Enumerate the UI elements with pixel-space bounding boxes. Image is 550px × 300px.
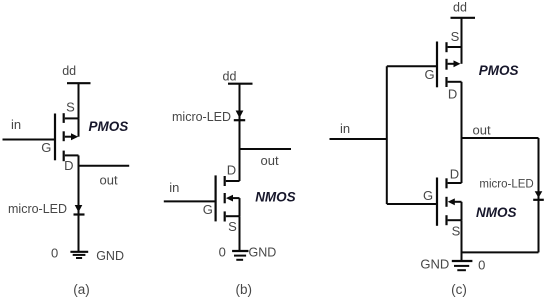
wire output to LED right branch (c)	[538, 138, 540, 252]
wire output net (a)	[79, 165, 130, 167]
svg-text:NMOS: NMOS	[476, 205, 517, 220]
svg-text:S: S	[451, 29, 460, 44]
svg-text:G: G	[41, 140, 51, 155]
wire input branch to gate M3 (c)	[387, 65, 437, 67]
svg-text:out: out	[473, 123, 491, 138]
svg-text:(b): (b)	[236, 282, 253, 297]
svg-text:D: D	[450, 167, 459, 182]
svg-text:micro-LED: micro-LED	[172, 110, 231, 124]
ground symbol (c)	[452, 261, 473, 270]
wire Vdd through LED to drain M2 (b)	[239, 84, 241, 181]
wire input branch to gate M4 (c)	[387, 203, 437, 205]
wire Vdd to source M1	[78, 83, 80, 118]
transistor M2 NMOS (b)	[216, 175, 240, 221]
ground symbol (b)	[232, 251, 248, 260]
supply rail Vdd (c)	[451, 17, 476, 19]
wire output net horizontal (c)	[462, 137, 539, 139]
svg-text:S: S	[66, 100, 75, 115]
svg-text:S: S	[228, 219, 237, 234]
micro-LED D1 (a)	[74, 205, 85, 215]
svg-text:D: D	[448, 87, 457, 102]
wire source M2 to ground (b)	[239, 216, 241, 251]
svg-text:PMOS: PMOS	[479, 63, 519, 78]
svg-text:in: in	[340, 121, 350, 136]
svg-text:dd: dd	[62, 64, 76, 78]
svg-text:GND: GND	[420, 257, 449, 272]
svg-text:in: in	[11, 117, 21, 132]
wire output net (b)	[240, 148, 292, 150]
svg-text:dd: dd	[453, 1, 467, 15]
svg-text:G: G	[203, 202, 213, 217]
svg-text:out: out	[100, 173, 118, 188]
svg-text:micro-LED: micro-LED	[8, 202, 67, 216]
svg-text:NMOS: NMOS	[255, 190, 296, 205]
svg-text:GND: GND	[96, 249, 124, 263]
wire input net (a)	[3, 139, 56, 141]
svg-text:0: 0	[478, 258, 485, 273]
transistor M3 PMOS (c)	[437, 42, 462, 88]
wire drain M3 to drain M4 output net (c)	[461, 82, 463, 183]
supply rail Vdd (a)	[67, 82, 91, 84]
transistor M4 NMOS (c)	[437, 178, 462, 226]
svg-text:micro-LED: micro-LED	[479, 179, 533, 191]
wire input net (c)	[330, 138, 387, 140]
svg-text:out: out	[261, 153, 279, 168]
svg-text:in: in	[169, 180, 179, 195]
svg-text:S: S	[452, 224, 461, 239]
svg-text:GND: GND	[249, 246, 277, 260]
svg-text:0: 0	[51, 246, 58, 261]
supply rail Vdd (b)	[228, 83, 253, 85]
svg-text:G: G	[423, 188, 433, 203]
svg-text:dd: dd	[223, 70, 237, 84]
svg-text:D: D	[227, 163, 236, 178]
wire source M4 to ground (c)	[461, 220, 463, 261]
transistor M1 PMOS (a)	[55, 113, 79, 161]
micro-LED D3 (c)	[533, 191, 544, 200]
ground symbol (a)	[70, 252, 88, 258]
micro-LED D2 (b)	[234, 111, 245, 121]
wire Vdd to source M3 (c)	[461, 18, 463, 47]
svg-text:(c): (c)	[451, 282, 467, 297]
svg-text:D: D	[64, 158, 73, 173]
svg-text:PMOS: PMOS	[89, 119, 129, 134]
wire LED cathode return to ground (c)	[462, 251, 539, 253]
svg-text:0: 0	[219, 245, 226, 260]
wire drain M1 to LED to ground (a)	[78, 155, 80, 251]
svg-text:(a): (a)	[73, 282, 90, 297]
wire input net (b)	[164, 200, 216, 202]
wire input bus vertical (c)	[386, 66, 388, 204]
svg-text:G: G	[424, 67, 434, 82]
